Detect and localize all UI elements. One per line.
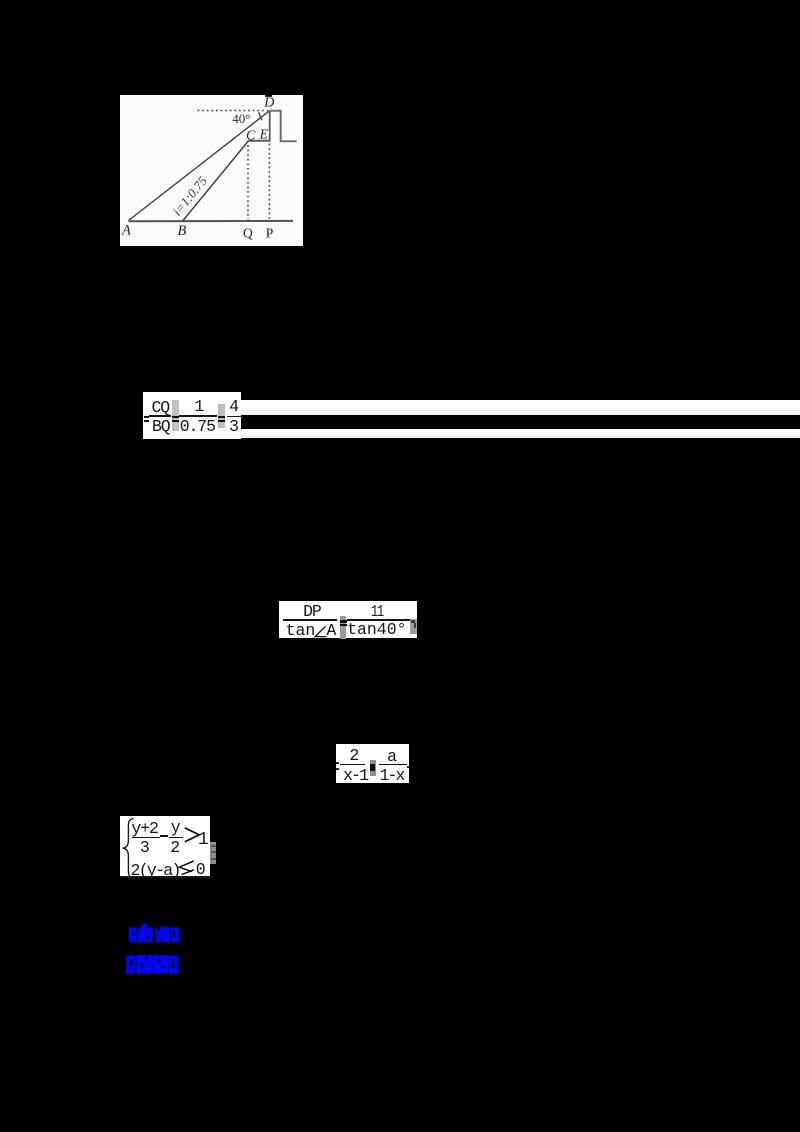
- big left brace: [122, 818, 136, 879]
- fraction 2 over x-1: [349, 746, 358, 765]
- equals sign dark blob on gray: [370, 760, 377, 775]
- equation DP/tanA = 11/tan40: [279, 601, 417, 639]
- ground line ABQP: [129, 220, 294, 222]
- equals mark left edge: [144, 416, 149, 418]
- equation CQ/BQ = 1/0.75 = 4/3: [143, 392, 241, 439]
- angle symbol: [314, 626, 327, 638]
- trailing mark right of equation: [410, 619, 416, 634]
- blue heading kaodian: [127, 922, 185, 946]
- equals sign 1 dark blob on gray: [172, 400, 179, 431]
- fraction 11 over tan40: [371, 602, 383, 621]
- trailing mark right of system: [210, 842, 216, 865]
- minus sign: [160, 835, 168, 837]
- fraction y over 2: [171, 818, 180, 837]
- fraction 1 over 0.75: [194, 397, 203, 416]
- svg-text:B: B: [178, 223, 187, 239]
- text line strip A (white highlight row): [143, 400, 800, 410]
- fraction 4 over 3: [229, 397, 238, 416]
- second row 2(y-a): [131, 861, 180, 880]
- svg-text:P: P: [266, 225, 274, 240]
- less-equal slanted sign: [178, 860, 195, 876]
- white figure background: [120, 95, 303, 246]
- svg-text:D: D: [263, 96, 274, 111]
- number 1 right side: [198, 830, 208, 850]
- blue heading fenxi: [124, 952, 182, 978]
- underline below system: [120, 876, 212, 878]
- angle arc at D: [259, 112, 262, 120]
- svg-text:C: C: [246, 128, 256, 143]
- segment C to E horizontal: [248, 140, 270, 142]
- top edge notch above D: [265, 95, 272, 97]
- step wall from D right: [269, 111, 296, 142]
- diagram figure (slope/dam geometry): [120, 95, 303, 246]
- svg-text:Q: Q: [243, 225, 253, 240]
- text line strip B (white highlight row): [241, 429, 800, 435]
- zero: [196, 860, 205, 879]
- wire line B to C: [183, 141, 248, 221]
- dotted horizontal line through D: [198, 110, 269, 112]
- equation 2/(x-1) = a/(1-x): [336, 744, 409, 783]
- equals mark left edge: [336, 762, 340, 764]
- svg-text:E: E: [259, 128, 269, 143]
- greater-than sign: [184, 827, 201, 843]
- segment D to E vertical: [269, 111, 271, 142]
- fraction a over 1-x: [387, 747, 396, 766]
- svg-text:A: A: [121, 223, 131, 239]
- equals sign 2 dark blob on gray: [218, 404, 225, 428]
- trailing dash right edge: [407, 766, 409, 768]
- equals sign dark blob on gray: [340, 616, 346, 639]
- system of inequalities: [120, 816, 210, 879]
- fraction y+2 over 3: [131, 819, 157, 838]
- dotted vertical C to Q: [247, 145, 249, 220]
- fraction CQ over BQ: [152, 398, 170, 417]
- dotted vertical E to P: [268, 144, 270, 220]
- wire line A to D: [129, 111, 270, 221]
- fraction DP over tan-angle-A: [303, 602, 321, 621]
- svg-text:40°: 40°: [232, 111, 250, 126]
